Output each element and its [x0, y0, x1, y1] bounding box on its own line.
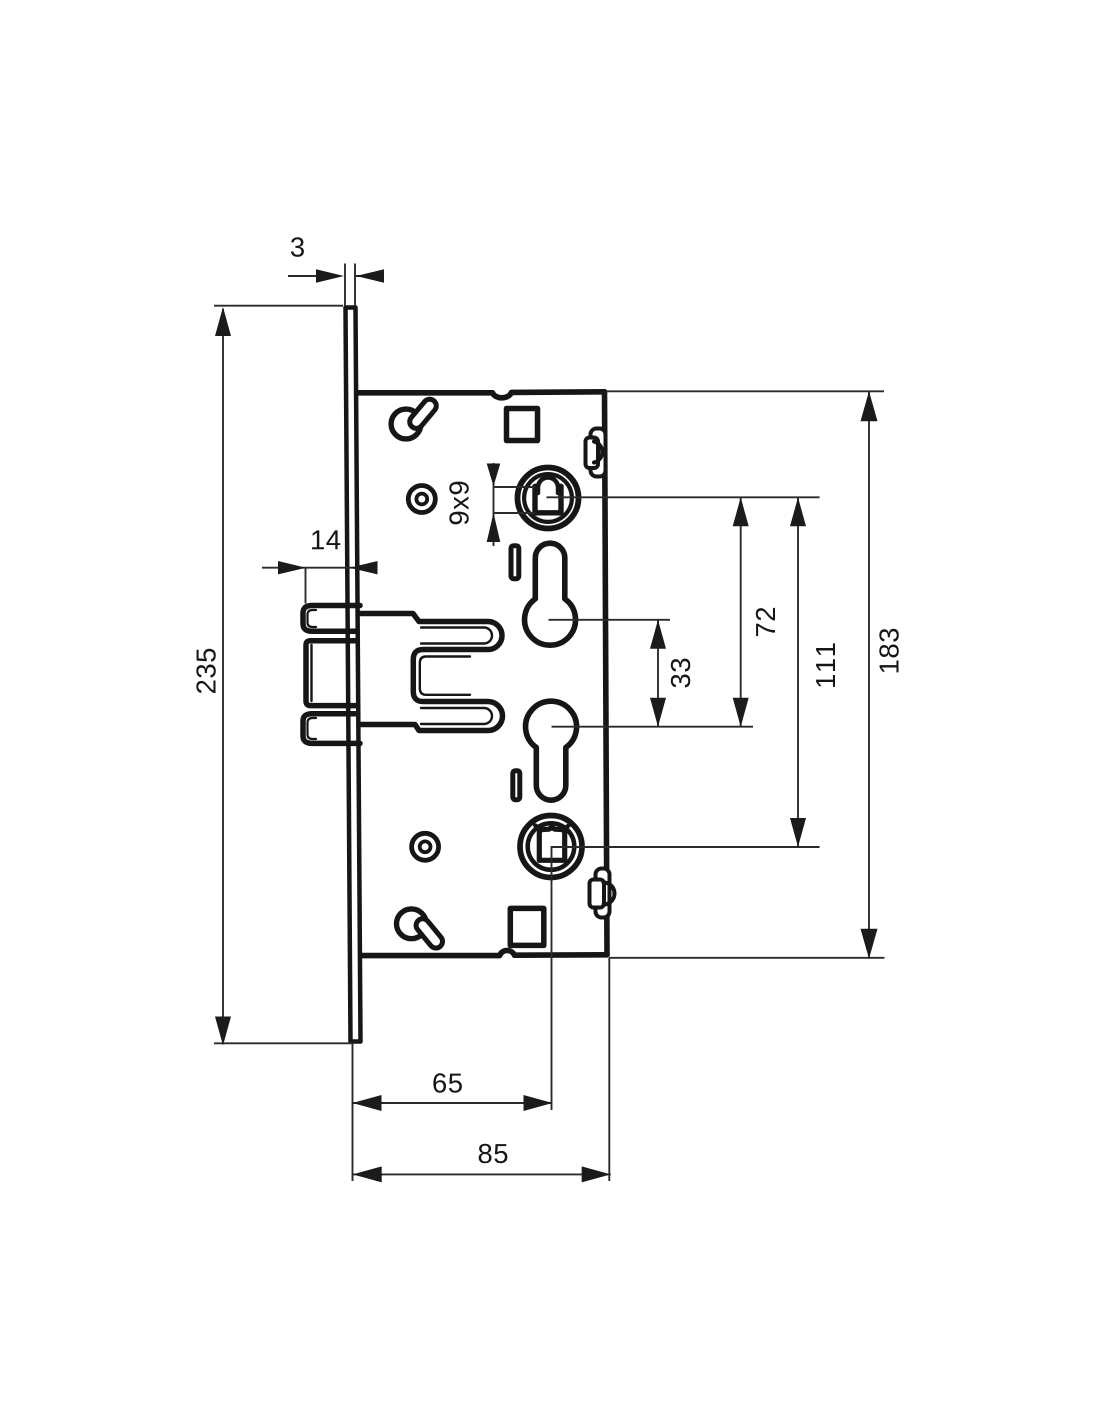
dim 72: arrows	[733, 497, 749, 526]
dim 14: label	[312, 530, 340, 549]
centerline lower follower	[551, 846, 820, 848]
dim 72: label	[756, 608, 775, 636]
latch head bottom cap	[303, 714, 360, 744]
latch head middle inner line	[310, 645, 312, 701]
dim 65: arrows	[353, 1095, 382, 1111]
follower lower	[520, 816, 582, 878]
lock body bottom edge with crimp notch	[361, 950, 607, 955]
centerline upper cylinder	[549, 619, 671, 621]
dim 85: arrows	[353, 1166, 382, 1182]
dim 111: arrows	[790, 497, 806, 526]
knob with lever bottom-left	[397, 909, 427, 939]
latch fork outline	[359, 614, 502, 731]
slot lower	[513, 771, 520, 800]
dim 235: arrows	[215, 307, 231, 336]
square hole top	[507, 409, 538, 441]
screw upper	[408, 486, 435, 513]
dim 65: label	[433, 1073, 462, 1092]
dim 65: left extension line below faceplate	[352, 1043, 354, 1181]
latch head top cap	[303, 606, 360, 632]
dim 3: label	[291, 237, 304, 256]
dim 3: extension lines above faceplate	[345, 264, 355, 307]
dim 235: extension lines	[214, 306, 353, 1044]
latch fork upper prong inner line	[421, 628, 492, 644]
dim 85: dimension line	[353, 1173, 611, 1175]
cylinder hole lower (euro profile, stem down)	[526, 701, 577, 800]
lock body top edge with crimp notch	[358, 392, 605, 398]
dim 235: label	[196, 649, 215, 693]
dim 9x9: arrows	[487, 464, 501, 487]
latch head bottom cap inner line	[308, 718, 317, 739]
dim 14: arrows	[278, 561, 306, 574]
dim 33: dimension line	[657, 620, 659, 727]
knob with lever top-left	[391, 409, 421, 439]
centerline upper follower	[547, 496, 820, 498]
extension line body bottom right	[609, 957, 885, 959]
dim 85: label	[479, 1144, 508, 1163]
latch head middle section	[306, 641, 360, 706]
spindle square hole 9x9	[535, 486, 561, 513]
dim 235: dimension line	[222, 309, 224, 1042]
lock body right edge	[605, 392, 608, 955]
faceplate	[346, 308, 361, 1042]
spindle spring dome	[538, 478, 558, 494]
follower lower square hole with arch top	[539, 827, 564, 860]
spindle follower upper	[518, 468, 579, 529]
extension line body top right	[606, 390, 884, 392]
dim 183: dimension line	[868, 391, 870, 958]
dim 9x9: extension lines to square	[495, 487, 536, 513]
keeper bracket upper right	[591, 429, 606, 477]
dim 72: dimension line	[740, 497, 742, 726]
latch fork notch inner line	[420, 657, 470, 695]
dim 85: right extension line	[608, 958, 610, 1181]
screw lower	[412, 833, 439, 860]
slot upper	[511, 546, 519, 579]
dim 9x9: bowtie line	[493, 463, 495, 546]
dim 183: arrows	[861, 391, 878, 421]
dim 183: label	[879, 629, 898, 673]
dim 33: arrows	[650, 620, 666, 649]
centerline lower cylinder	[552, 726, 754, 728]
dim 3: arrows	[316, 269, 344, 282]
cylinder hole upper (euro profile, stem up)	[525, 543, 576, 645]
dim 3: dimension line	[288, 275, 384, 277]
dim 33: label	[671, 659, 690, 688]
dim 14: dimension line	[262, 567, 357, 569]
latch head top cap inner line	[308, 610, 317, 627]
dim 65: extension line from follower	[551, 847, 553, 1110]
dim 65: dimension line	[353, 1102, 553, 1104]
dim 111: dimension line	[797, 497, 799, 847]
dim 14: latch extension line	[305, 568, 307, 604]
dim 9x9: label	[449, 482, 468, 525]
keeper bracket lower right	[596, 869, 610, 918]
square hole bottom	[510, 908, 544, 945]
latch fork lower prong inner line	[421, 708, 492, 724]
dim 111: label	[816, 643, 835, 686]
